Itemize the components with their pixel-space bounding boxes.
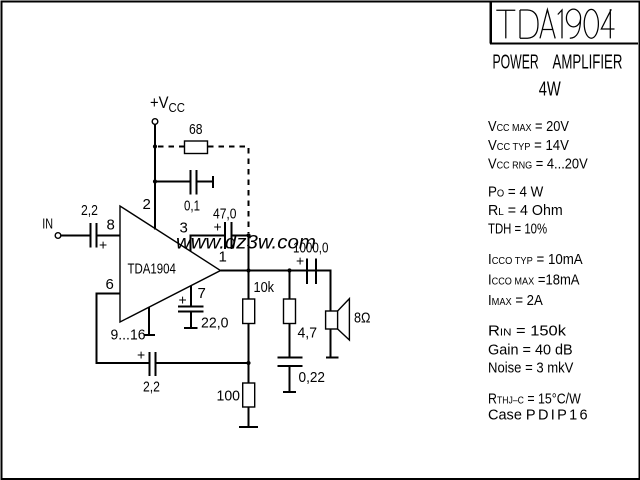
op-amp U1 TDA1904 triangle <box>120 206 221 322</box>
wire 2,2 to pin 8 <box>98 235 121 237</box>
capacitor C1 2,2 input <box>91 223 97 248</box>
wire 10k to feedback junction <box>248 324 250 384</box>
wire C5 to feedback junction <box>157 362 249 364</box>
resistor R3 100 <box>243 383 255 407</box>
svg-text:ICCO MAX =18mA: ICCO MAX =18mA <box>488 271 580 288</box>
svg-text:+: + <box>137 347 145 363</box>
node 4,7 branch junction <box>287 268 291 272</box>
svg-text:Noise = 3 mkV: Noise = 3 mkV <box>488 359 574 376</box>
title box <box>490 2 638 43</box>
capacitor C7 1000,0 <box>307 259 316 285</box>
svg-text:VCC TYP = 14V: VCC TYP = 14V <box>488 136 569 153</box>
svg-text:2,2: 2,2 <box>143 378 160 394</box>
svg-text:8Ω: 8Ω <box>354 308 370 325</box>
node junction at 0,1 branch <box>153 179 157 183</box>
svg-text:PO = 4 W: PO = 4 W <box>488 184 544 201</box>
node junction at 68 branch <box>153 144 157 148</box>
terminal bar below C4 <box>184 327 197 329</box>
capacitor C6 0,22 <box>278 358 303 367</box>
svg-text:AMPLIFIER: AMPLIFIER <box>553 50 623 74</box>
ground pins 9...16 <box>143 334 155 336</box>
capacitor C4 22,0 <box>178 307 203 312</box>
wire VCC vertical to pin 2 <box>154 124 156 229</box>
wire speaker to ground <box>330 329 332 357</box>
svg-text:22,0: 22,0 <box>201 315 228 331</box>
wire pin 3 stub <box>191 235 225 251</box>
wire C7 to speaker <box>317 271 331 312</box>
svg-text:+: + <box>296 253 304 269</box>
svg-text:8: 8 <box>107 217 115 234</box>
ground below 100 <box>239 426 258 428</box>
wire output pin1 to speaker branch <box>221 270 332 272</box>
svg-text:10k: 10k <box>254 278 275 295</box>
resistor R1 68 <box>185 141 208 154</box>
svg-text:TDA1904: TDA1904 <box>128 260 177 277</box>
svg-text:RIN = 150k: RIN = 150k <box>488 323 566 339</box>
svg-text:RTHJ–C = 15°C/W: RTHJ–C = 15°C/W <box>488 390 581 406</box>
svg-text:ICCO TYP = 10mA: ICCO TYP = 10mA <box>488 251 583 268</box>
wire junction to 4,7 <box>289 271 291 300</box>
wire C4 to terminal <box>190 312 192 328</box>
wire to capacitor 0,1 <box>155 181 190 183</box>
svg-text:+: + <box>179 292 187 308</box>
wire from 0,1 to stub end <box>198 181 214 183</box>
svg-text:4W: 4W <box>539 77 561 100</box>
wire 4,7 to 0,22 <box>289 324 291 358</box>
svg-text:www.dz3w.com: www.dz3w.com <box>176 232 316 253</box>
resistor R4 4,7 <box>284 299 296 324</box>
capacitor C2 0,1 <box>191 170 197 195</box>
node feedback junction <box>246 361 250 365</box>
wire 0,22 to terminal <box>289 366 291 392</box>
wire main vertical rail <box>248 235 250 299</box>
svg-text:Case PDIP16: Case PDIP16 <box>488 407 590 423</box>
resistor R2 10k <box>243 299 255 324</box>
svg-text:TDH = 10%: TDH = 10% <box>488 220 547 237</box>
svg-text:+: + <box>99 237 107 253</box>
svg-text:9...16: 9...16 <box>111 327 146 344</box>
title TDA1904 hand-drawn glyphs <box>496 9 614 38</box>
wire pin 9...16 stub <box>148 307 150 335</box>
wire 100 to ground <box>248 407 250 427</box>
node +VCC terminal <box>152 119 158 125</box>
svg-text:IN: IN <box>42 215 53 232</box>
svg-text:POWER: POWER <box>493 50 539 73</box>
svg-text:0,22: 0,22 <box>299 369 326 386</box>
wire IN to capacitor 2,2 <box>61 235 90 237</box>
node IN terminal <box>55 233 61 239</box>
wire dashed from 68 down to pin3 node <box>208 147 249 234</box>
svg-text:VCC RNG = 4...20V: VCC RNG = 4...20V <box>488 155 588 172</box>
svg-text:0,1: 0,1 <box>184 197 200 214</box>
ground below speaker <box>326 357 339 359</box>
svg-text:4,7: 4,7 <box>298 325 317 342</box>
terminal bar below 0,22 <box>283 391 296 393</box>
node output junction <box>246 268 250 272</box>
svg-text:6: 6 <box>106 276 114 293</box>
speaker LS1 <box>326 299 350 340</box>
svg-text:7: 7 <box>198 285 206 302</box>
svg-text:VCC MAX = 20V: VCC MAX = 20V <box>488 117 570 134</box>
svg-text:2: 2 <box>143 196 151 213</box>
capacitor C5 2,2 feedback <box>150 352 156 376</box>
svg-text:Gain = 40 dB: Gain = 40 dB <box>488 342 573 358</box>
svg-text:+VCC: +VCC <box>150 94 185 115</box>
svg-text:IMAX = 2A: IMAX = 2A <box>488 291 543 308</box>
svg-text:68: 68 <box>189 121 202 137</box>
capacitor C3 47,0 <box>225 222 231 249</box>
svg-text:2,2: 2,2 <box>81 202 98 218</box>
svg-text:RL = 4 Ohm: RL = 4 Ohm <box>488 203 563 219</box>
wire pin 6 to feedback <box>97 294 149 364</box>
wire dashed to resistor 68 <box>158 146 185 148</box>
wire 47,0 to node <box>232 234 249 236</box>
terminal bar of 0,1 <box>212 176 214 188</box>
wire pin 7 stub <box>190 286 192 306</box>
node pin3/dashed junction <box>246 233 250 237</box>
svg-text:100: 100 <box>217 388 240 404</box>
